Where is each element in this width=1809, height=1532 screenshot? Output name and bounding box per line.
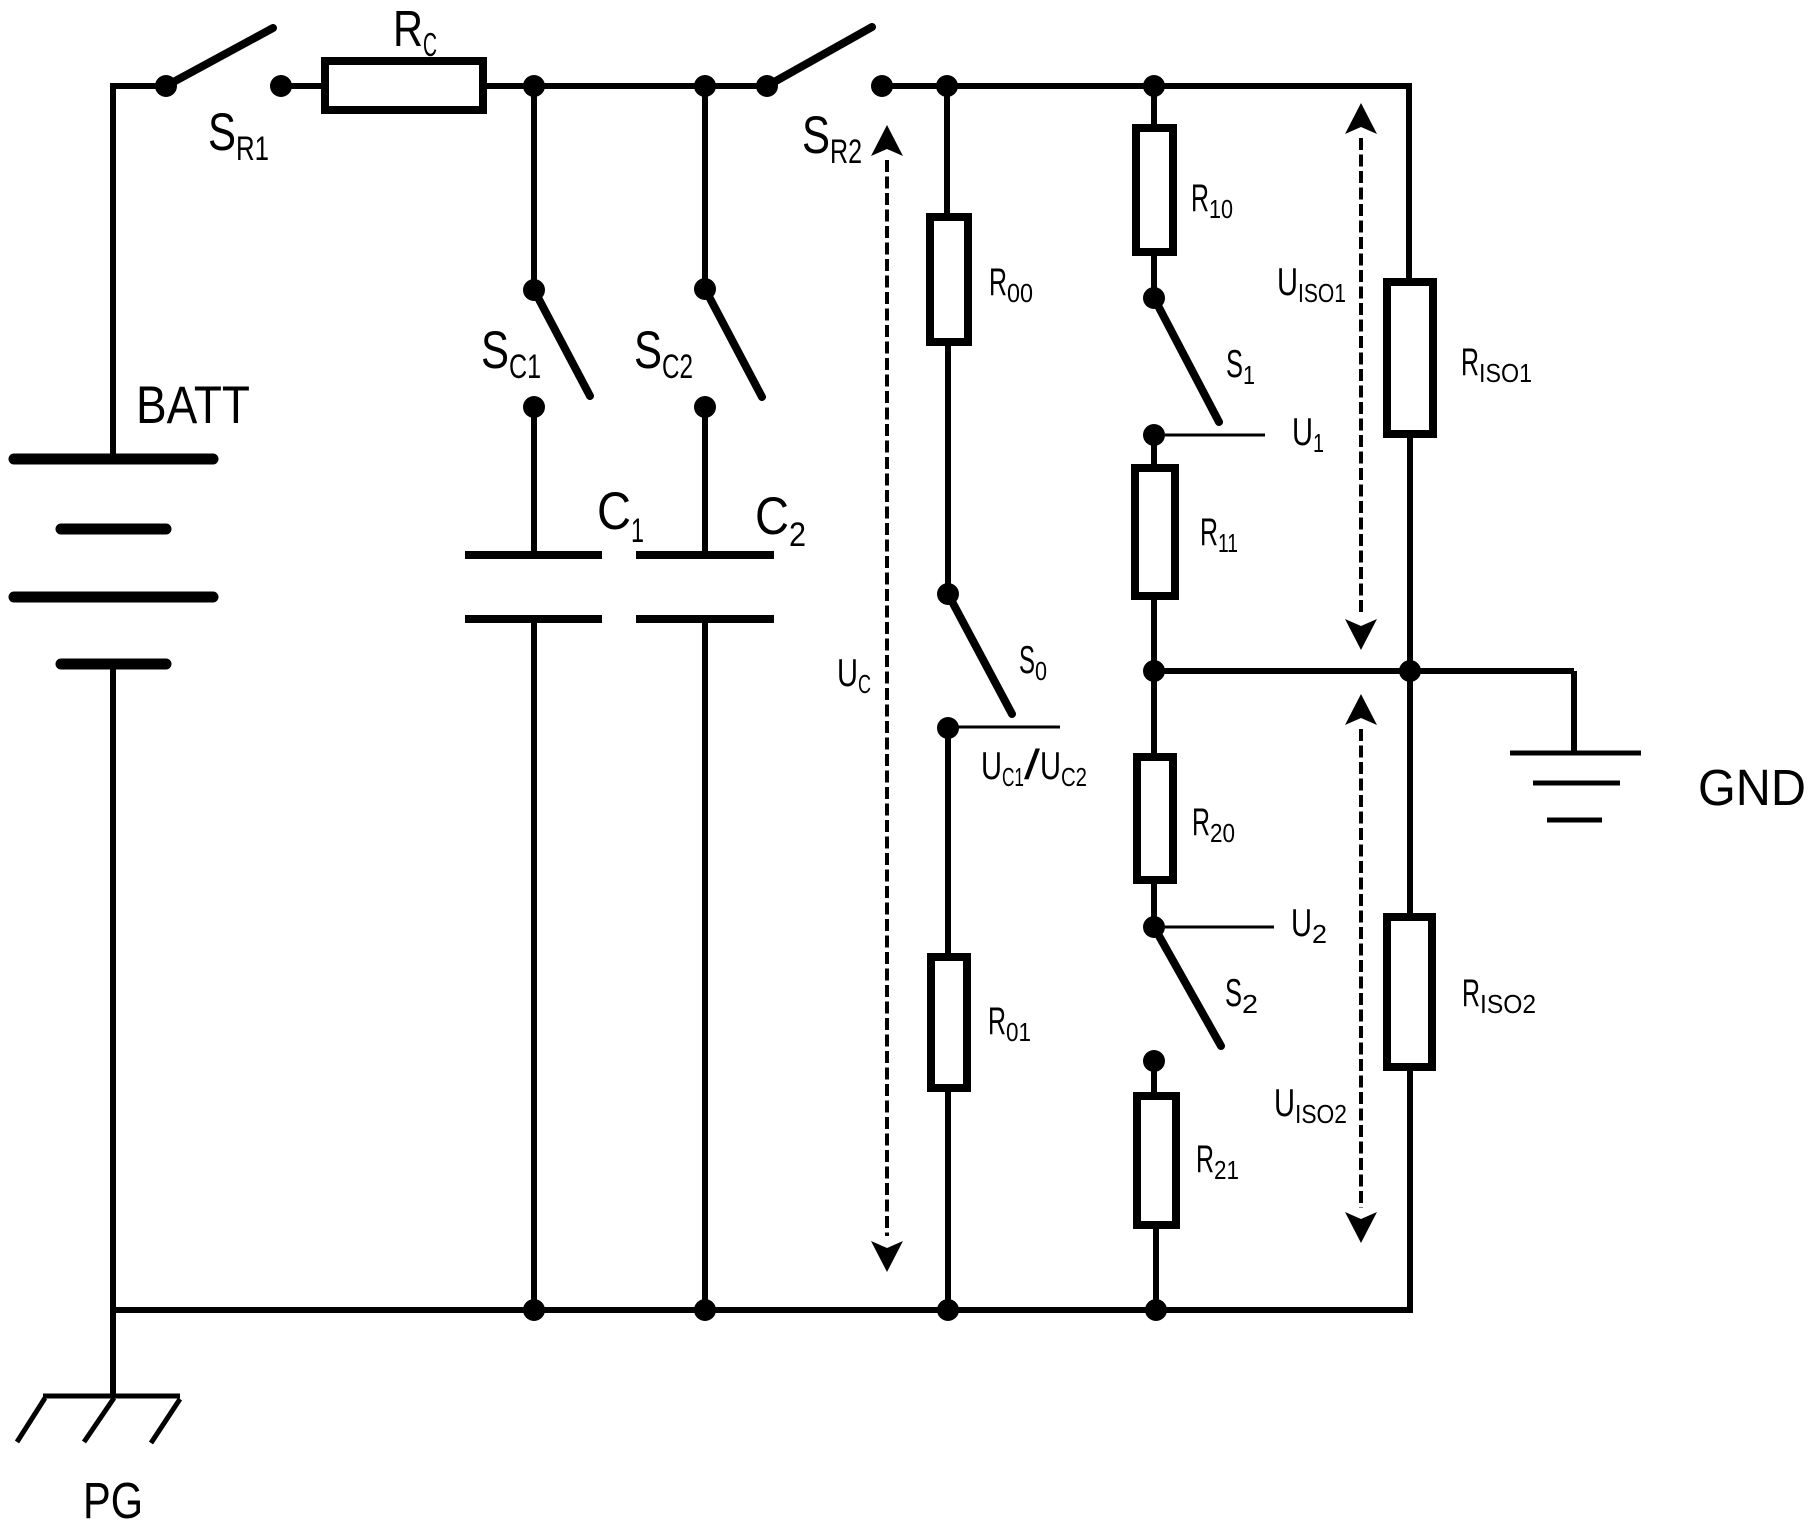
wire SC1 to C1: [531, 407, 537, 551]
wire R10 branch top: [1151, 86, 1157, 124]
resistor R00: [930, 217, 968, 342]
wire R00 branch top: [944, 86, 950, 213]
wire C1 bottom to bus: [531, 619, 537, 1310]
arrow UC dashed measurement: [871, 125, 903, 1272]
arrow UISO1 dashed measurement: [1345, 103, 1377, 650]
wire bottom bus: [113, 1307, 1412, 1313]
resistor RISO1: [1387, 282, 1433, 434]
switch S2: [1143, 916, 1221, 1072]
switch S0: [937, 583, 1012, 739]
node C2 bottom: [694, 1299, 716, 1321]
wire SR1 to RC: [281, 83, 321, 89]
wire GND stem: [1571, 671, 1577, 753]
wire RISO2 to bottom bus: [1407, 1071, 1413, 1313]
svg-text:BATT: BATT: [136, 376, 250, 435]
svg-text:GND: GND: [1698, 759, 1806, 816]
wire RC to SR2: [487, 83, 767, 89]
wire right vertical down to RISO1: [1406, 83, 1412, 278]
wire R20 to S2: [1151, 884, 1157, 927]
battery BATT: [14, 459, 213, 664]
wire R21 to bottom bus: [1153, 1229, 1159, 1310]
ground PG symbol: [17, 1396, 180, 1443]
wire C2 branch top: [702, 86, 708, 289]
resistor RC: [325, 61, 483, 110]
wire SC2 to C2: [702, 407, 708, 551]
node U2 tap line: [1165, 926, 1274, 929]
wire C1 branch top: [531, 86, 537, 290]
wire R20 branch: [1151, 671, 1157, 753]
wire S1 to R11: [1151, 435, 1157, 464]
node R00 top junction: [936, 75, 958, 97]
switch SR2: [756, 27, 893, 97]
resistor R21: [1137, 1096, 1176, 1225]
node R21 bottom: [1145, 1299, 1167, 1321]
wire top bus left segment: [113, 83, 166, 89]
node C1 top junction: [523, 75, 545, 97]
node C1 bottom: [523, 1299, 545, 1321]
wire S2 to R21: [1151, 1061, 1157, 1092]
wire C2 bottom to bus: [702, 619, 708, 1310]
switch SR1: [155, 28, 292, 97]
node mid junction R11/R20: [1143, 660, 1165, 682]
wire R00 to S0: [945, 346, 951, 594]
wire R10 to S1: [1151, 256, 1157, 298]
switch SC1: [523, 279, 590, 418]
resistor R01: [931, 957, 967, 1088]
node R10 top junction: [1143, 75, 1165, 97]
wire left vertical from top bus to battery: [110, 83, 116, 459]
ground GND symbol: [1510, 753, 1641, 820]
node C2 top junction: [694, 75, 716, 97]
switch SC2: [694, 278, 762, 418]
node R01 bottom: [937, 1299, 959, 1321]
wire mid node to RISO2: [1407, 671, 1413, 913]
capacitor C2: [636, 555, 774, 619]
wire mid ground net: [1154, 668, 1574, 674]
wire RISO1 to mid node: [1407, 438, 1413, 671]
arrow UISO2 dashed measurement: [1345, 694, 1377, 1243]
switch S1: [1143, 287, 1219, 446]
wire S0 to R01: [945, 728, 951, 953]
wire top bus right segment: [882, 83, 1409, 89]
resistor R20: [1137, 757, 1173, 880]
node UC1/UC2 tap line: [958, 726, 1060, 729]
svg-text:PG: PG: [83, 1472, 143, 1529]
resistor R11: [1135, 468, 1175, 596]
wire R11 to mid node: [1151, 600, 1157, 671]
wire R01 to bottom bus: [945, 1092, 951, 1310]
node U1 tap line: [1165, 434, 1265, 437]
node mid right junction: [1399, 660, 1421, 682]
resistor RISO2: [1387, 917, 1432, 1067]
resistor R10: [1136, 128, 1173, 252]
capacitor C1: [465, 555, 602, 619]
wire battery bottom down to PG: [110, 664, 116, 1396]
